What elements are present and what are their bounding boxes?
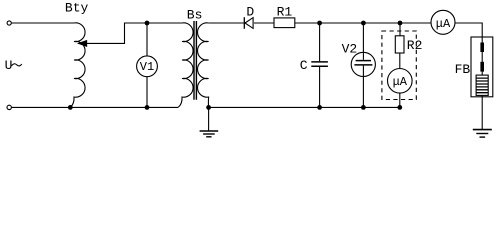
wire (top meter to FB)	[455, 23, 482, 37]
wire (secondary top to diode)	[209, 22, 244, 24]
wire (R2 to microammeter)	[399, 53, 401, 69]
svg-text:R1: R1	[277, 4, 293, 19]
autotransformer Bty winding	[70, 23, 85, 107]
svg-text:FB: FB	[455, 62, 471, 77]
wire (R1 to microammeter)	[295, 22, 431, 24]
FB heater bar 1	[480, 43, 484, 53]
wire (T1 to Bty top)	[11, 22, 74, 24]
resistor R1	[274, 18, 295, 28]
label ~ (AC symbol)	[12, 64, 22, 66]
FB inner lead	[481, 37, 483, 97]
svg-text:Bty: Bty	[65, 1, 89, 16]
transformer Bs secondary winding	[198, 23, 209, 108]
wire (wiper tap to top rail)	[86, 23, 182, 43]
voltmeter V1	[137, 56, 158, 77]
junction (C top)	[317, 21, 322, 26]
svg-text:μA: μA	[436, 17, 451, 31]
svg-text:V2: V2	[342, 41, 358, 56]
junction (Bty bottom)	[68, 105, 73, 110]
diode D triangle	[245, 18, 253, 29]
wire (V2 bottom lead)	[362, 66, 364, 108]
wire (bottom rail left: T2 to Bs primary)	[12, 106, 179, 108]
wire (V2 top lead)	[362, 23, 364, 60]
wire (FB to ground)	[481, 97, 483, 130]
ground (FB)	[473, 129, 492, 131]
junction (V2 top)	[361, 21, 366, 26]
transformer Bs core	[194, 21, 196, 100]
junction (R2 top)	[398, 21, 403, 26]
diode D cathode bar	[243, 17, 245, 29]
svg-text:Bs: Bs	[187, 7, 203, 22]
junction (V2 bottom)	[361, 105, 366, 110]
terminal T2 (lower input)	[7, 105, 11, 109]
wire (junction to V1)	[146, 23, 148, 56]
junction (boxed meter bottom)	[397, 105, 402, 110]
svg-text:D: D	[246, 4, 254, 19]
wire (bottom rail right)	[209, 106, 400, 108]
resistor R2	[395, 36, 404, 53]
wire (R2 top lead)	[399, 23, 401, 36]
junction (V1 top)	[145, 21, 150, 26]
terminal T1 (upper input)	[7, 21, 11, 25]
capacitor C plates	[311, 61, 328, 63]
svg-text:C: C	[300, 58, 308, 73]
ground (transformer secondary)	[200, 130, 219, 132]
vacuum thermoelement FB body	[471, 37, 493, 97]
dashed enclosure (R2 + uA)	[382, 31, 416, 100]
FB thermopile stack	[476, 75, 488, 95]
wire (diode to R1)	[254, 22, 274, 24]
svg-text:V1: V1	[140, 60, 154, 74]
svg-text:μA: μA	[393, 75, 408, 89]
wiper arrow of Bty	[79, 41, 87, 47]
transformer Bs primary winding	[178, 23, 193, 107]
regulator tube V2	[351, 52, 375, 76]
wire (C bottom lead)	[319, 67, 321, 107]
wire (C top lead)	[319, 23, 321, 61]
junction (C bottom)	[317, 105, 322, 110]
microammeter uA (top, series)	[431, 10, 455, 34]
wire (ground stub)	[208, 107, 210, 130]
V2 inner plates	[356, 60, 371, 62]
wire (boxed meter to bottom rail)	[399, 93, 401, 107]
wire (V1 to bottom rail)	[146, 77, 148, 108]
FB heater bar 2	[480, 62, 484, 72]
junction (V1 bottom)	[145, 105, 150, 110]
svg-text:R2: R2	[407, 38, 423, 53]
microammeter uA (inside dashed box)	[388, 69, 413, 94]
junction (secondary bottom / ground node)	[206, 105, 211, 110]
